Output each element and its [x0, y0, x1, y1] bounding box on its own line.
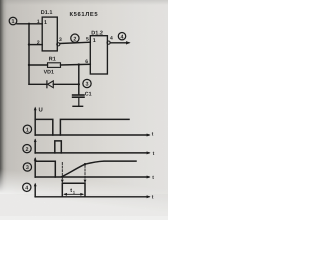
svg-text:R1: R1 — [49, 56, 56, 62]
svg-text:t: t — [152, 195, 154, 201]
row1 axis U with arrow — [34, 106, 43, 135]
svg-text:3: 3 — [59, 37, 62, 43]
row4 axis — [34, 183, 37, 197]
svg-text:D1.2: D1.2 — [91, 30, 103, 36]
svg-text:2: 2 — [37, 40, 40, 46]
row1 time axis with arrow — [35, 134, 149, 136]
row4 node label 4 — [23, 183, 31, 191]
row4 time axis with arrow — [35, 196, 149, 198]
row1 node label 1 — [23, 125, 31, 133]
t1 dimension double arrow — [63, 193, 84, 196]
row1 waveform — [35, 119, 129, 135]
capacitor C1 — [73, 95, 84, 106]
junction dot at left rail top — [28, 23, 30, 25]
svg-text:U: U — [39, 106, 43, 113]
row3 waveform with exponential charge curve — [35, 161, 136, 177]
svg-text:5: 5 — [86, 37, 89, 43]
svg-text:4: 4 — [25, 186, 28, 192]
wire pin2 of D1.1 — [29, 44, 42, 46]
svg-text:1: 1 — [73, 190, 75, 194]
row2 waveform pulse — [55, 141, 62, 153]
svg-text:VD1: VD1 — [44, 69, 54, 75]
node 2 circle — [71, 34, 79, 42]
dashed extension line left t1 — [61, 163, 64, 184]
row3 time axis with arrow — [35, 176, 149, 178]
diode VD1 — [47, 81, 53, 88]
junction dot diode/C1 — [78, 83, 80, 85]
wire R1 row rail to D1.2 pin6 — [29, 64, 48, 66]
wire left rail vertical — [28, 24, 30, 85]
svg-text:1: 1 — [44, 20, 47, 26]
svg-text:1: 1 — [37, 19, 40, 25]
ground bar — [73, 105, 83, 107]
junction dot on curve — [84, 163, 86, 165]
gate D1.1 — [42, 17, 60, 51]
svg-text:2: 2 — [26, 147, 29, 153]
wire RC node vertical — [78, 65, 80, 95]
svg-text:t: t — [152, 175, 154, 181]
junction blobs at axis corners — [34, 134, 36, 136]
svg-text:C1: C1 — [85, 92, 92, 98]
row3 axis — [34, 157, 37, 177]
svg-text:1: 1 — [12, 19, 15, 25]
wire D1.2 output with arrow — [110, 42, 128, 44]
dashed extension line right t1 — [84, 165, 87, 183]
row3 node label 3 — [23, 163, 31, 171]
svg-text:1: 1 — [93, 38, 96, 44]
svg-text:t: t — [70, 188, 72, 194]
svg-text:D1.1: D1.1 — [41, 10, 53, 16]
resistor R1 — [48, 63, 61, 68]
row2 axis — [34, 138, 37, 153]
wire node1 to pin1 of D1.1 — [17, 23, 42, 25]
node 3 circle — [83, 79, 91, 87]
svg-text:4: 4 — [110, 36, 113, 42]
junction dot rail/pin2 — [28, 43, 30, 45]
wire D1.1 out to D1.2 pin5 — [60, 42, 90, 43]
gate D1.2 — [90, 36, 110, 74]
svg-text:К561ЛЕ5: К561ЛЕ5 — [70, 11, 99, 18]
svg-text:3: 3 — [26, 165, 29, 171]
svg-text:t: t — [152, 132, 154, 138]
junction dot rail/R1 — [28, 64, 30, 66]
svg-text:3: 3 — [86, 82, 89, 88]
node 1 input circle — [9, 17, 17, 25]
wire diode row — [29, 83, 47, 85]
row2 node label 2 — [23, 144, 31, 152]
row4 waveform pulse — [62, 183, 85, 197]
svg-text:2: 2 — [73, 36, 76, 42]
svg-text:4: 4 — [121, 34, 124, 40]
node 4 circle — [118, 33, 125, 41]
svg-text:1: 1 — [26, 128, 29, 134]
row2 time axis with arrow — [35, 152, 149, 154]
svg-text:t: t — [153, 151, 155, 157]
junction dot RC node — [78, 63, 80, 65]
